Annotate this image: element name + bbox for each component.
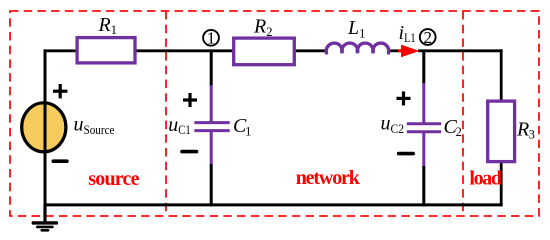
wire right vertical to R3 top bbox=[500, 49, 503, 101]
ground bbox=[32, 221, 58, 231]
plus sign C1 bbox=[183, 93, 197, 107]
plus sign source bbox=[53, 84, 67, 98]
divider network/load bbox=[462, 11, 464, 216]
plus sign C2 bbox=[397, 91, 411, 105]
wire top-left horizontal bbox=[44, 49, 77, 52]
wire R1 to R2 through node 1 bbox=[135, 49, 233, 52]
wire L1 to arrow bbox=[387, 49, 401, 52]
node 1 circle bbox=[203, 30, 219, 46]
minus sign C1 bbox=[182, 150, 197, 154]
minus sign C2 bbox=[399, 152, 414, 156]
minus sign source bbox=[53, 159, 67, 163]
bottom rail wire bbox=[44, 203, 503, 206]
node 2 circle bbox=[420, 29, 436, 45]
resistor R1 bbox=[77, 38, 135, 63]
wire node 2 to right corner bbox=[418, 49, 503, 52]
inductor L1 bbox=[326, 43, 389, 53]
svg-text:source: source bbox=[88, 168, 139, 190]
current arrow iL1 bbox=[398, 49, 403, 52]
resistor R2 bbox=[234, 38, 295, 65]
svg-text:load: load bbox=[469, 168, 502, 190]
wire R3 bottom to bottom rail bbox=[500, 162, 503, 207]
svg-text:network: network bbox=[296, 167, 361, 189]
C2 bottom wire bbox=[422, 166, 425, 206]
node 2 drop wire bbox=[422, 51, 425, 84]
wire R2 to L1 bbox=[295, 49, 327, 52]
capacitor C2 leads bbox=[422, 83, 425, 123]
wire left vertical bbox=[44, 49, 47, 206]
capacitor C1 leads bbox=[210, 85, 213, 122]
resistor R3 bbox=[488, 101, 515, 162]
ground stem bbox=[43, 204, 46, 222]
capacitor C2 plates bbox=[407, 122, 441, 125]
divider source/network bbox=[165, 11, 167, 216]
voltage source uSource bbox=[22, 103, 66, 152]
C1 bottom wire bbox=[210, 164, 213, 206]
svg-text:1: 1 bbox=[207, 29, 216, 48]
svg-text:2: 2 bbox=[423, 28, 432, 47]
capacitor C1 plates bbox=[194, 121, 229, 124]
node 1 drop wire bbox=[210, 51, 213, 86]
